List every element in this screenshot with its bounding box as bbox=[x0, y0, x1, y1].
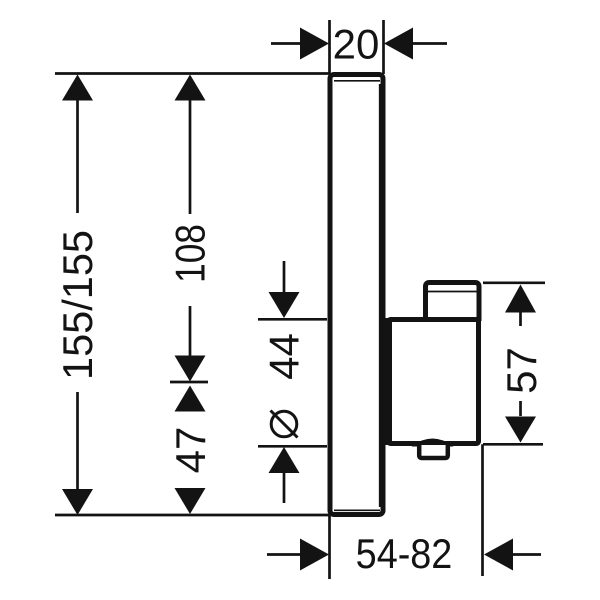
diameter symbol circle bbox=[271, 411, 297, 437]
dim 108 bottom arrow bbox=[175, 356, 206, 382]
dim 57 upper line bbox=[519, 309, 522, 326]
diameter symbol slash bbox=[271, 411, 298, 438]
extension line 57 bottom horizontal bbox=[483, 443, 543, 446]
dim 108 lower line bbox=[189, 306, 192, 357]
faceplate inner right edge bbox=[379, 84, 381, 507]
svg-text:47: 47 bbox=[167, 427, 214, 474]
dim 54-82 right tail bbox=[512, 553, 541, 556]
dim 47 bottom arrow bbox=[175, 488, 206, 514]
svg-text:108: 108 bbox=[168, 224, 215, 283]
svg-text:20: 20 bbox=[333, 21, 380, 68]
extension line top-left horizontal bbox=[55, 72, 330, 75]
dim 20 left arrow bbox=[300, 28, 329, 60]
tick 44 bottom bbox=[258, 445, 327, 448]
faceplate inner bottom edge bbox=[334, 509, 380, 511]
dim 57 bottom arrow bbox=[505, 417, 536, 443]
dim 54-82 left arrow bbox=[300, 539, 329, 571]
dim 44 lower line bbox=[283, 472, 286, 503]
dim 47 top arrow bbox=[175, 386, 206, 412]
svg-text:57: 57 bbox=[498, 347, 545, 394]
extension line bottom-left horizontal bbox=[55, 514, 330, 517]
extension line 54-82 left vertical bbox=[328, 516, 331, 579]
handle button bbox=[426, 283, 480, 322]
handle body bbox=[389, 320, 479, 444]
dim 20 right arrow bbox=[384, 28, 413, 60]
dim 155/155 bottom arrow bbox=[62, 489, 93, 515]
dim 57 top arrow bbox=[505, 285, 536, 313]
dim 20 right tail bbox=[412, 42, 447, 45]
dim 108 upper line bbox=[189, 99, 192, 214]
handle body left edge bbox=[383, 318, 392, 445]
faceplate inner top edge bbox=[334, 80, 380, 82]
extension line 20 left vertical bbox=[328, 20, 331, 74]
extension line 54-82 right vertical bbox=[481, 444, 484, 576]
dim 57 lower line bbox=[519, 401, 522, 416]
svg-text:155/155: 155/155 bbox=[54, 230, 101, 380]
faceplate outline bbox=[330, 75, 383, 515]
dim 44 top arrow bbox=[269, 292, 300, 318]
extension line 57 top horizontal bbox=[483, 281, 545, 284]
dim 155/155 lower line bbox=[76, 392, 79, 490]
extension line 20 right vertical bbox=[382, 20, 385, 74]
svg-text:44: 44 bbox=[261, 333, 308, 380]
dim 54-82 left tail bbox=[267, 553, 301, 556]
dim 108 top arrow bbox=[175, 75, 206, 101]
dim 155/155 upper line bbox=[76, 99, 79, 213]
dim 44 bottom arrow bbox=[269, 447, 300, 473]
dim 54-82 right arrow bbox=[484, 539, 513, 571]
center tick 108/47 bbox=[170, 381, 208, 384]
svg-text:54-82: 54-82 bbox=[356, 531, 453, 577]
dim 155/155 top arrow bbox=[62, 75, 93, 101]
dim 44 upper line bbox=[283, 261, 286, 293]
handle button inner line bbox=[428, 291, 477, 293]
dim 20 left tail bbox=[271, 42, 301, 45]
handle bottom tab bbox=[419, 445, 448, 458]
handle bottom bump bbox=[413, 439, 452, 446]
tick 44 top bbox=[258, 318, 327, 321]
